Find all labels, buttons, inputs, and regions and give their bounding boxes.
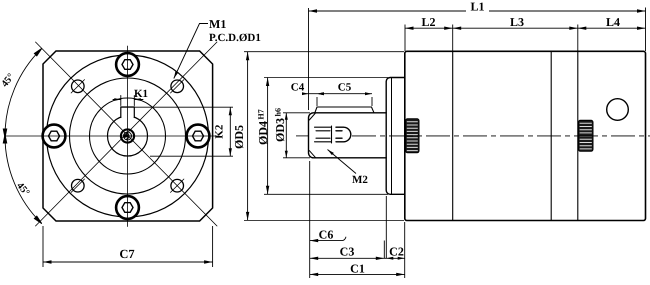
M1 leader and label (174, 24, 208, 79)
svg-text:C3: C3 (340, 245, 355, 259)
svg-text:L3: L3 (510, 15, 524, 29)
gearbox body (405, 51, 646, 220)
centreline side view (296, 135, 309, 137)
K1 dimension (120, 96, 122, 106)
output shaft (309, 113, 387, 158)
svg-text:ØD3: ØD3 (273, 118, 287, 142)
45deg dimension arc (5, 49, 42, 224)
svg-text:h6: h6 (274, 108, 283, 116)
vertical centerline (127, 46, 129, 227)
svg-text:M1: M1 (209, 17, 226, 31)
body section line 1 (452, 51, 454, 220)
L1 label (466, 1, 489, 12)
shaft chamfer (309, 113, 315, 120)
svg-text:L1: L1 (470, 0, 484, 14)
diagonal centerline BL-TR (36, 42, 218, 226)
svg-text:K2: K2 (214, 124, 226, 139)
OD4 dimension (264, 77, 388, 79)
C6 dimension line (310, 237, 346, 241)
OD3 h6 label (273, 108, 287, 142)
L2 L3 L4 extension lines (404, 25, 406, 52)
svg-text:K1: K1 (134, 88, 148, 100)
socket screw 2 (116, 196, 139, 219)
svg-text:ØD5: ØD5 (232, 125, 246, 149)
L2-L4 dimension line (405, 27, 646, 29)
M1 tapped hole 4 (171, 179, 184, 192)
shaft keyway side view (315, 107, 374, 113)
knurled ring 2 (578, 120, 593, 151)
svg-text:C5: C5 (338, 82, 352, 94)
body section line 3 (577, 51, 579, 220)
center arc detail (127, 133, 129, 139)
svg-text:H7: H7 (257, 109, 266, 119)
M2 tapped centre hole (315, 126, 332, 143)
svg-text:P.C.D.ØD1: P.C.D.ØD1 (209, 32, 261, 44)
C1 dimension line (310, 273, 405, 275)
C3 C2 dimension line (310, 257, 405, 259)
svg-text:ØD4: ØD4 (256, 121, 270, 145)
svg-text:C2: C2 (389, 245, 404, 259)
flange square outline (43, 51, 213, 221)
M1 tapped hole 1 (72, 80, 85, 93)
body circle (70, 78, 186, 194)
socket screw 4 (187, 125, 210, 148)
svg-text:C1: C1 (350, 262, 365, 276)
svg-text:C4: C4 (291, 82, 305, 94)
svg-text:C6: C6 (319, 228, 334, 242)
socket screw 1 (116, 53, 139, 76)
svg-text:L2: L2 (421, 15, 435, 29)
center bore ring (121, 129, 134, 142)
clamp hole circle (607, 99, 629, 121)
pilot boss circle (90, 98, 166, 174)
OD3 dimension (283, 112, 310, 114)
keyway front view (121, 107, 135, 118)
svg-text:C7: C7 (119, 247, 134, 261)
M1 tapped hole 3 (72, 179, 85, 192)
C7 dimension (43, 226, 213, 267)
flange plate step line (391, 78, 393, 195)
body section line 2 (550, 51, 552, 220)
flange outer circle OD5 (47, 55, 209, 217)
socket screw 3 (43, 125, 66, 148)
bottom extension lines (309, 161, 311, 278)
M1 hole cross ticks (71, 80, 84, 93)
OD4 H7 label (256, 109, 270, 145)
svg-text:M2: M2 (352, 174, 368, 186)
horizontal centerline (5, 135, 218, 137)
OD5 dimension (244, 51, 404, 53)
shaft circle (108, 116, 148, 156)
diagonal centerline TL-BR (36, 42, 218, 226)
K2 dimension (121, 107, 233, 156)
output flange plate (386, 78, 405, 195)
L1 extension lines (308, 8, 310, 110)
M2 label and leader (328, 150, 357, 174)
knurled ring 1 (406, 119, 419, 153)
C4 C5 dimension line (302, 93, 372, 95)
M1 tapped hole 2 (171, 80, 184, 93)
L1 dimension line (309, 10, 646, 12)
C4 C5 extension lines (316, 97, 318, 106)
svg-text:L4: L4 (606, 15, 620, 29)
